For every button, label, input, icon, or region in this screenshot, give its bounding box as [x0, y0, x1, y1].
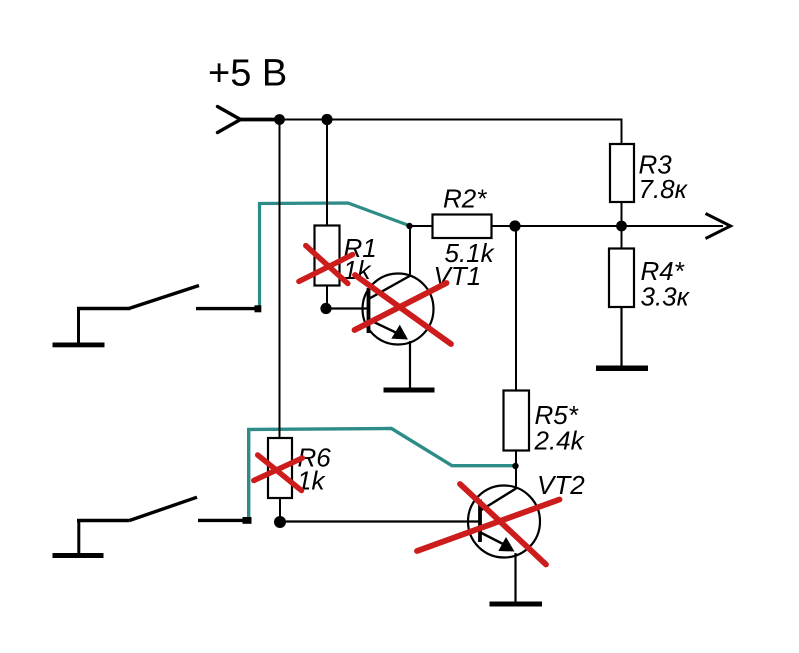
wire select 2 (teal): [249, 429, 515, 522]
svg-text:2.4k: 2.4k: [534, 426, 586, 456]
node VT2 base junction: [274, 516, 286, 528]
wire node to R5: [515, 226, 517, 391]
wire supply feed: [239, 118, 281, 122]
cross-out VT1: [355, 275, 452, 344]
wire R3 to node: [621, 202, 623, 226]
wire select 1 (teal): [260, 203, 410, 310]
wire VT2 emitter: [514, 553, 516, 602]
wire VT1 base: [326, 307, 368, 309]
resistor R2: [433, 215, 492, 239]
resistor R3: [610, 144, 634, 202]
node rail junction B: [321, 114, 332, 125]
ground R4: [596, 366, 648, 372]
cross-out R6: [254, 455, 302, 491]
node output junction R3R4: [616, 221, 627, 232]
wire VT2 base: [280, 520, 480, 522]
resistor R4: [609, 249, 634, 308]
svg-text:7.8к: 7.8к: [639, 174, 689, 204]
terminal nub SB2: [243, 517, 252, 524]
wire R4 to ground: [620, 307, 622, 366]
wire R5 to collector node: [515, 451, 517, 467]
svg-text:VT2: VT2: [537, 470, 585, 500]
wire R1 to base node: [326, 286, 328, 310]
switch SB2: [77, 497, 245, 554]
node rail junction A: [274, 114, 285, 125]
wire rail to R6: [279, 120, 281, 440]
wire VT1 collector: [409, 226, 411, 276]
ground VT2: [490, 602, 543, 607]
ground VT1: [384, 388, 435, 393]
ground switch SB2: [53, 553, 104, 558]
wire R6 to base node: [279, 498, 281, 522]
wire top rail: [280, 120, 622, 145]
ground switch SB1: [53, 343, 105, 348]
wire R2 left lead: [409, 225, 433, 227]
switch SB1: [77, 286, 256, 345]
node output junction R5: [509, 220, 520, 231]
wire output rail: [492, 225, 724, 227]
node R2 left collector VT1: [406, 223, 412, 229]
wire VT1 emitter: [409, 341, 411, 388]
svg-text:R2*: R2*: [443, 184, 487, 214]
terminal nub SB1: [255, 305, 262, 312]
resistor R1: [315, 226, 340, 286]
resistor R6: [268, 438, 292, 498]
wire rail to R1: [326, 120, 328, 227]
node VT1 base junction: [320, 303, 331, 314]
resistor R5: [504, 391, 530, 451]
output arrow: [706, 214, 731, 239]
wire VT2 collector: [515, 466, 517, 489]
svg-text:3.3к: 3.3к: [641, 282, 691, 312]
svg-text:5.1k: 5.1k: [445, 238, 496, 268]
node VT2 collector R5: [512, 463, 518, 469]
svg-text:+5 В: +5 В: [208, 53, 287, 95]
cross-out R1: [299, 246, 353, 284]
wire node to R4: [621, 226, 623, 249]
transistor VT1: [363, 274, 434, 345]
cross-out VT2: [417, 484, 560, 565]
input arrow: [218, 107, 241, 133]
transistor VT2: [468, 486, 540, 558]
